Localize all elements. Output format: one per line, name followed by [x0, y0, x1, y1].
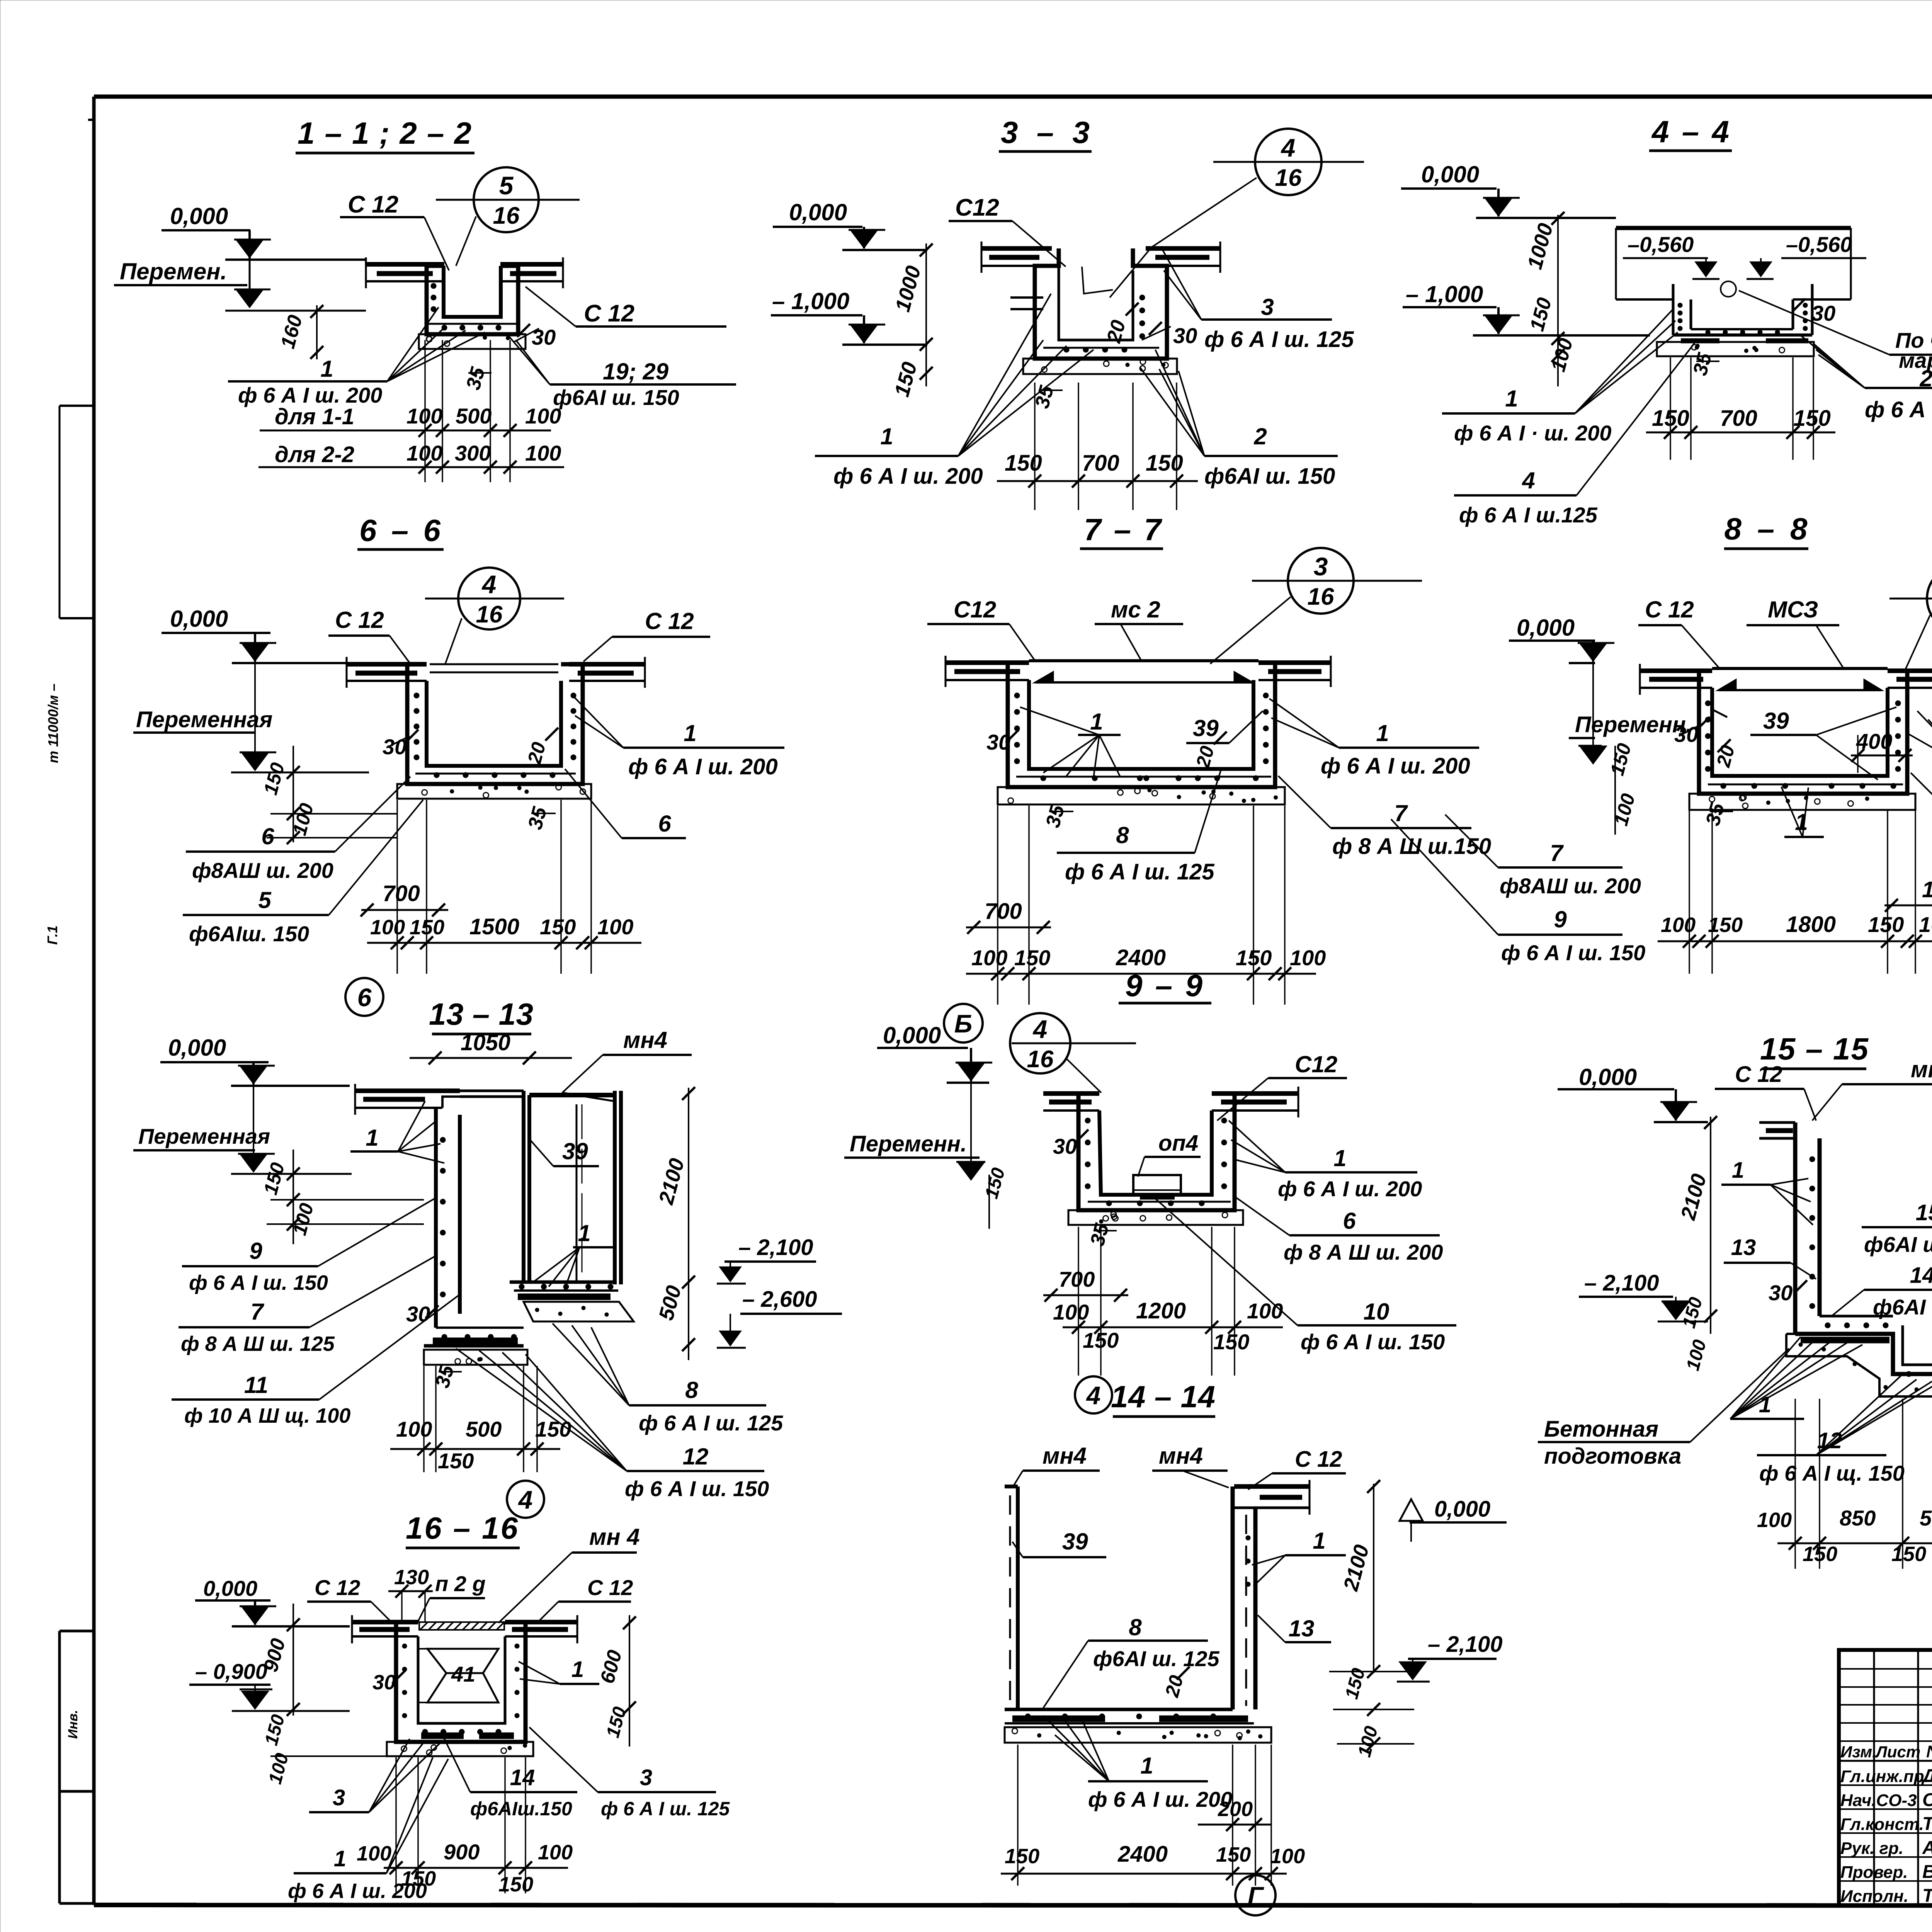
label 1 ф6АI ш.200 (8-8) [1909, 711, 1932, 804]
svg-text:1 – 1 ; 2 – 2: 1 – 1 ; 2 – 2 [298, 116, 471, 150]
svg-text:6: 6 [1343, 1208, 1356, 1234]
svg-text:С 12: С 12 [587, 1575, 633, 1600]
section title 13-13 [429, 997, 533, 1034]
detail circle 4/16 (6-6) [425, 568, 564, 629]
svg-text:500: 500 [466, 1417, 502, 1441]
label 7 ф8АIII ш.200 (8-8) [1911, 773, 1932, 881]
svg-text:30: 30 [1173, 323, 1197, 348]
svg-text:30: 30 [1674, 722, 1698, 747]
svg-text:500: 500 [456, 404, 492, 428]
svg-text:150: 150 [535, 1417, 571, 1441]
label 13 (14-14) [1258, 1615, 1331, 1642]
level mark Переменная (13-13 left) [133, 1062, 352, 1174]
level -2,100 (13-13) [717, 1235, 816, 1284]
label п2g (16-16) [417, 1571, 486, 1623]
channel pit 9-9 [1078, 1094, 1235, 1210]
svg-text:С 12: С 12 [1645, 597, 1694, 622]
svg-text:0,000: 0,000 [170, 203, 228, 229]
svg-text:1: 1 [1732, 1158, 1744, 1183]
dim 30 (6-6) [383, 730, 418, 759]
svg-text:п 2 g: п 2 g [435, 1571, 486, 1596]
svg-text:16: 16 [1027, 1046, 1054, 1073]
floor slab left (7-7) [946, 656, 1029, 687]
label 11 ф10АШ щ.100 (13-13) [172, 1294, 460, 1427]
dim row 150 700 150 (3-3) [997, 451, 1198, 488]
label С 12 left (15-15) [1715, 1062, 1816, 1121]
svg-text:900: 900 [444, 1840, 480, 1864]
extension lines (13-13) [423, 1366, 425, 1472]
leader from circle (6-6) [445, 618, 462, 664]
cover plate мс2 (7-7) [1029, 661, 1259, 682]
svg-text:– 2,100: – 2,100 [738, 1235, 813, 1260]
label мн4 (13-13) [562, 1027, 692, 1093]
label 1 right (14-14) [1252, 1528, 1346, 1586]
svg-text:19; 29: 19; 29 [603, 359, 669, 384]
level mark 0,000 (13-13 left) [160, 1035, 350, 1086]
svg-text:ф6АIш. 150: ф6АIш. 150 [189, 922, 309, 946]
extension lines (3-3 dims) [1034, 383, 1036, 510]
svg-text:100: 100 [971, 946, 1007, 970]
svg-text:Тарабрина: Тарабрина [1922, 1886, 1932, 1906]
hatched infill band (16-16) [419, 1622, 504, 1630]
channel pit 6-6 [407, 664, 583, 784]
svg-text:оп4: оп4 [1158, 1131, 1198, 1156]
dim row 100 150 1500 150 100 (6-6) [367, 914, 641, 949]
svg-text:30: 30 [1769, 1281, 1793, 1305]
prep layer 6-6 [397, 784, 591, 799]
svg-text:1: 1 [880, 423, 893, 449]
extension lines (14-14) [1232, 1745, 1233, 1886]
dim 20 rotated (8-8) [1712, 739, 1739, 770]
label 1 bottom (8-8) [1781, 787, 1824, 837]
svg-text:мн4: мн4 [623, 1027, 667, 1053]
svg-text:150: 150 [1891, 1543, 1926, 1566]
label 1 ф6АI ш.200 (1-1) [228, 307, 485, 407]
svg-text:ф 6 А I ш. 150: ф 6 А I ш. 150 [625, 1476, 769, 1501]
svg-text:– 2,600: – 2,600 [742, 1287, 817, 1312]
svg-text:1: 1 [1090, 709, 1103, 735]
label 6 ф8АШ ш.200 (below 6-6) [186, 777, 410, 883]
label С 12 right (6-6) [583, 608, 710, 662]
channel pit 7-7 [1008, 663, 1275, 787]
vertical dim 600 (16-16) [596, 1615, 636, 1747]
label 8 ф6АI ш.125 (14-14) [1043, 1614, 1219, 1708]
svg-text:30: 30 [532, 325, 556, 349]
svg-text:39: 39 [1062, 1529, 1088, 1554]
floor slab (4-4) [1616, 228, 1851, 299]
svg-text:700: 700 [1082, 451, 1119, 476]
svg-text:1800: 1800 [1786, 912, 1836, 937]
svg-text:100: 100 [1270, 1845, 1305, 1868]
svg-text:0,000: 0,000 [170, 606, 228, 632]
svg-text:ф 10 А Ш щ. 100: ф 10 А Ш щ. 100 [184, 1404, 350, 1427]
level mark -2,100 (15-15 left) [1579, 1089, 1708, 1321]
label 1 with fan (7-7) [1020, 707, 1121, 777]
svg-text:С12: С12 [955, 194, 999, 221]
vertical dim 160 (1-1) [277, 305, 323, 359]
svg-text:ф 6 А I · ш. 200: ф 6 А I · ш. 200 [1454, 421, 1611, 445]
left labels 7 ф8АШ ш.200 / 9 ф6АI ш.150 (8-8) [1445, 815, 1641, 898]
section title 15-15 [1760, 1032, 1869, 1069]
dim 30 (9-9) [1053, 1129, 1088, 1158]
label С 12 (14-14) [1248, 1447, 1346, 1490]
svg-text:Провер.: Провер. [1840, 1863, 1908, 1882]
section title 7-7 [1080, 512, 1163, 549]
vertical dims right (7-7) [1606, 741, 1639, 835]
level mark 0,000 (13-13 right) [877, 1022, 992, 1083]
dim 1050 (13-13) [410, 1030, 572, 1065]
svg-text:16: 16 [476, 601, 503, 628]
svg-text:150: 150 [1216, 1843, 1251, 1866]
level 0,000 (14-14) [1400, 1497, 1507, 1542]
label 8 ф6АI ш.125 (7-7) [1057, 770, 1221, 884]
svg-text:0,000: 0,000 [1579, 1064, 1637, 1090]
dim 130 (16-16) [388, 1566, 433, 1623]
svg-text:8 – 8: 8 – 8 [1725, 512, 1808, 546]
axis circle 4 (9-9) [1075, 1376, 1112, 1413]
svg-text:мн4: мн4 [1043, 1443, 1087, 1469]
svg-text:1: 1 [1505, 386, 1518, 412]
svg-text:Б: Б [954, 1009, 973, 1038]
label 1 bottom-left (15-15) [1730, 1337, 1862, 1419]
svg-text:ф 6 А I ш. 150: ф 6 А I ш. 150 [189, 1271, 328, 1294]
floor slab left (3-3) [981, 241, 1052, 273]
dim 20 rotated (14-14) [1161, 1667, 1190, 1700]
detail circle 4/16 (9-9) [1010, 1013, 1136, 1073]
level mark 0,000 (16-16) [195, 1576, 350, 1626]
svg-text:С 12: С 12 [584, 300, 634, 327]
svg-text:Гл.конст.: Гл.конст. [1840, 1815, 1924, 1834]
svg-text:6: 6 [658, 811, 671, 837]
svg-text:13: 13 [1731, 1235, 1756, 1260]
floor slab left (1-1) [366, 257, 444, 288]
pit floor with sump (15-15) [1795, 1316, 1932, 1377]
floor (14-14) [1005, 1709, 1254, 1723]
vertical dim 35 (1-1) [462, 364, 492, 392]
svg-text:1: 1 [571, 1657, 584, 1682]
svg-text:подготовка: подготовка [1544, 1444, 1681, 1469]
svg-text:7: 7 [1394, 800, 1408, 826]
svg-text:100: 100 [396, 1417, 432, 1441]
svg-text:ф 6 А I ш. 200: ф 6 А I ш. 200 [238, 383, 382, 407]
level mark 0,000 (4-4) [1401, 162, 1616, 218]
svg-text:9: 9 [1554, 906, 1567, 932]
level -0,560 right [1747, 232, 1866, 279]
vertical dims 150/100 left (6-6) [260, 746, 397, 844]
svg-text:150: 150 [498, 1873, 533, 1896]
svg-text:850: 850 [1840, 1506, 1876, 1530]
svg-text:700: 700 [1059, 1267, 1095, 1291]
svg-text:100: 100 [1919, 912, 1932, 937]
svg-text:С 12: С 12 [1295, 1447, 1342, 1472]
svg-text:10: 10 [1364, 1299, 1389, 1325]
extension lines (8-8) [1689, 811, 1690, 974]
svg-text:2400: 2400 [1116, 945, 1166, 970]
svg-text:41: 41 [451, 1662, 475, 1686]
level mark Переменная (6-6) [133, 633, 369, 772]
leader from circle 5/16 [456, 216, 476, 266]
label 3 ф6АI ш.125 (3-3) [1161, 247, 1354, 352]
dim row 100 500 150 / 150 (13-13) [390, 1417, 571, 1473]
extension lines (4-4) [1670, 357, 1671, 460]
level mark Перемен. (1-1) [114, 230, 366, 311]
prep layer 7-7 [998, 787, 1285, 804]
svg-text:30: 30 [1811, 301, 1835, 325]
svg-text:14 – 14: 14 – 14 [1111, 1379, 1215, 1414]
dim 30 (7-7) [986, 730, 1019, 754]
svg-text:мн 4: мн 4 [589, 1524, 640, 1550]
svg-text:14: 14 [510, 1765, 535, 1790]
svg-text:7: 7 [250, 1299, 264, 1325]
svg-text:12: 12 [683, 1444, 709, 1469]
svg-text:ф 6 А I ш. 150: ф 6 А I ш. 150 [1501, 940, 1645, 965]
svg-text:мн4: мн4 [1911, 1056, 1932, 1082]
label 12 ф6АI щ.150 (15-15) [1757, 1376, 1932, 1485]
dim 700 (6-6) [361, 881, 448, 917]
vertical dim 35 (9-9) [1086, 1221, 1117, 1248]
svg-text:6: 6 [261, 823, 274, 849]
level mark 0,000 (6-6) [162, 606, 346, 663]
upper floor slab (13-13) [355, 1084, 460, 1115]
vertical dim 35 (6-6) [524, 804, 556, 832]
svg-text:0,000: 0,000 [883, 1022, 941, 1048]
extension lines (9-9) [1078, 1227, 1079, 1376]
vertical dim 35 (4-4) [1689, 350, 1719, 378]
floor slab right (8-8) [1888, 664, 1932, 695]
svg-text:150: 150 [438, 1449, 474, 1473]
svg-text:ф 6 А I ш. 150: ф 6 А I ш. 150 [1301, 1330, 1445, 1354]
dim 30 (3-3) [1142, 322, 1197, 348]
svg-text:2: 2 [1253, 423, 1267, 449]
svg-text:мс 2: мс 2 [1111, 597, 1160, 622]
dim row 100 150 1800 150 100 (8-8) [1658, 912, 1932, 948]
floor slab right (9-9) [1212, 1087, 1298, 1117]
channel pit 16-16 [396, 1622, 526, 1742]
svg-text:– 2,100: – 2,100 [1584, 1270, 1659, 1296]
deep pit walls (15-15) [1759, 1122, 1932, 1334]
svg-text:4: 4 [518, 1485, 533, 1514]
svg-text:Г.1: Г.1 [44, 925, 60, 945]
svg-text:3: 3 [640, 1765, 652, 1790]
extension lines (15-15) [1794, 1399, 1796, 1569]
svg-text:–0,560: –0,560 [1786, 232, 1852, 257]
svg-text:1200: 1200 [1136, 1298, 1186, 1323]
svg-text:100: 100 [1661, 913, 1696, 937]
leader from circle (8-8) [1905, 615, 1930, 670]
label С 12 upper left (1-1) [340, 191, 449, 270]
svg-text:С 12: С 12 [315, 1575, 360, 1600]
svg-text:ф6АI ш. 150: ф6АI ш. 150 [553, 385, 679, 410]
label 6 ф8АIII ш.200 (9-9) [1236, 1198, 1443, 1264]
section title 3-3 [999, 115, 1092, 151]
svg-text:Апсе: Апсе [1922, 1838, 1932, 1858]
svg-text:ф 6 А I ш. 200: ф 6 А I ш. 200 [1321, 753, 1470, 779]
level -0,560 left [1623, 232, 1719, 279]
svg-text:ф 6 А I ш. 125: ф 6 А I ш. 125 [601, 1798, 730, 1820]
dim 1050 (8-8) [1884, 877, 1932, 974]
svg-text:150: 150 [1014, 946, 1050, 970]
label С12 (3-3) [949, 194, 1066, 267]
svg-text:1500: 1500 [469, 914, 519, 939]
vertical dims 150/100 (13-13 left) [260, 1150, 424, 1244]
label 39 (13-13) [530, 1138, 599, 1166]
label мн4 right (14-14) [1152, 1443, 1229, 1488]
svg-text:0,000: 0,000 [1421, 162, 1479, 187]
svg-text:3: 3 [333, 1785, 345, 1810]
svg-text:14: 14 [1910, 1263, 1932, 1288]
svg-text:5: 5 [258, 887, 272, 913]
svg-text:3: 3 [1314, 552, 1328, 581]
prep layer 16-16 [387, 1742, 533, 1756]
svg-text:– 2,100: – 2,100 [1428, 1632, 1503, 1657]
svg-text:– 1,000: – 1,000 [772, 288, 849, 314]
svg-text:С 12: С 12 [335, 607, 384, 633]
vertical dim line (4-4) [1523, 212, 1577, 386]
label 1 ф6АI ш.200 (4-4) [1442, 309, 1678, 445]
svg-text:30: 30 [383, 735, 406, 759]
detail circle 3/16 (7-7) [1252, 548, 1422, 614]
svg-text:1: 1 [684, 720, 696, 746]
drain hole (4-4) [1721, 281, 1736, 297]
svg-text:ф 6 А I ш. 125: ф 6 А I ш. 125 [1065, 859, 1214, 884]
level mark -1,000 (3-3) [771, 288, 927, 345]
dim row 150 700 150 (4-4) [1646, 406, 1835, 439]
svg-text:0,000: 0,000 [168, 1035, 226, 1061]
level mark 0,000 (15-15 left) [1558, 1064, 1708, 1122]
svg-text:Рук. гр.: Рук. гр. [1840, 1839, 1903, 1858]
svg-text:1050: 1050 [461, 1030, 510, 1055]
label 1 ф6АI ш.200 (14-14) [1043, 1716, 1232, 1811]
svg-text:8: 8 [685, 1377, 698, 1403]
floor slab left (6-6) [347, 657, 427, 688]
prep layer 9-9 [1068, 1210, 1243, 1225]
svg-text:150: 150 [1868, 912, 1904, 937]
svg-text:3 – 3: 3 – 3 [1001, 115, 1090, 150]
svg-text:ф6АI ш. 125: ф6АI ш. 125 [1093, 1646, 1219, 1671]
label Бетонная подготовка (15-15) [1538, 1349, 1789, 1469]
svg-text:0,000: 0,000 [1517, 615, 1575, 641]
title block revision table [1839, 1650, 1932, 1906]
svg-text:Инв.: Инв. [66, 1710, 80, 1739]
svg-text:для 2-2: для 2-2 [275, 442, 354, 467]
svg-text:6 – 6: 6 – 6 [359, 513, 441, 548]
axis circle Б [944, 1004, 983, 1043]
svg-text:2400: 2400 [1117, 1842, 1168, 1867]
label С 12 left (16-16) [307, 1575, 390, 1621]
label 2 ф6АI ш.150 (4-4) [1801, 335, 1932, 422]
leader from circle (3-3) [1151, 178, 1257, 247]
cover plate мс3 (8-8) [1712, 668, 1888, 690]
level mark 0,000 (3-3) [773, 199, 927, 250]
svg-text:1: 1 [1333, 1145, 1346, 1171]
dim 30 (16-16) [372, 1670, 405, 1694]
svg-text:Переменн.: Переменн. [850, 1131, 967, 1156]
dim row 100 150 2400 150 100 (7-7) [966, 945, 1326, 980]
label 10 ф6АI ш.150 (9-9) [1155, 1199, 1456, 1354]
label С 12 left (6-6) [328, 607, 410, 664]
dim 30 (15-15) [1769, 1280, 1807, 1305]
svg-text:150: 150 [1005, 1845, 1039, 1868]
svg-text:ф 6 А I ш.125: ф 6 А I ш.125 [1459, 503, 1598, 527]
label 19; 29 ф6АI ш.150 [506, 333, 736, 410]
main wall structure (13-13) [436, 1091, 621, 1328]
svg-text:100: 100 [525, 404, 561, 428]
svg-text:С12: С12 [1295, 1051, 1337, 1077]
svg-text:30: 30 [406, 1302, 430, 1326]
svg-text:ф 8 А Ш ш. 200: ф 8 А Ш ш. 200 [1284, 1240, 1443, 1264]
vertical dim 900 (16-16) [260, 1604, 300, 1716]
dim 20 rotated (7-7) [1192, 731, 1227, 770]
vertical dims 150 100 (16-16) [261, 1712, 387, 1786]
left margin rotated captions [44, 684, 80, 1739]
svg-text:Лист: Лист [1875, 1743, 1920, 1761]
dim 30 (8-8) [1674, 717, 1710, 747]
prep layer 3-3 [1023, 359, 1177, 374]
svg-text:1: 1 [334, 1846, 346, 1871]
detail circle 4/16 (3-3) [1213, 129, 1364, 195]
svg-text:4: 4 [1522, 468, 1535, 493]
svg-text:8: 8 [1129, 1614, 1142, 1640]
section title 1-1; 2-2 [296, 116, 474, 153]
svg-text:500: 500 [1920, 1506, 1932, 1530]
label 1 ф6АI ш.200 (7-7) [1269, 699, 1479, 779]
label 1 ф6АI ш.200 (6-6) [572, 695, 784, 779]
svg-text:Перемен.: Перемен. [120, 259, 227, 284]
vertical dim 35 (3-3) [1031, 383, 1063, 411]
label мн4 (15-15) [1812, 1056, 1932, 1121]
floor slab left (16-16) [352, 1615, 418, 1643]
svg-text:ф8АШ ш. 200: ф8АШ ш. 200 [1500, 874, 1641, 898]
svg-text:7: 7 [1550, 840, 1564, 866]
svg-text:С12: С12 [954, 597, 996, 622]
svg-text:С 12: С 12 [1735, 1062, 1782, 1087]
svg-text:1: 1 [320, 356, 333, 382]
label С12 (7-7) [927, 597, 1036, 662]
svg-text:ф 6 А I ш. 200: ф 6 А I ш. 200 [628, 754, 778, 779]
label С 12 (8-8) [1638, 597, 1720, 669]
svg-text:Олешко: Олешко [1922, 1790, 1932, 1810]
svg-text:100: 100 [1290, 946, 1326, 970]
label оп4 (9-9) [1138, 1131, 1201, 1177]
axis circle Г (14-14) [1235, 1875, 1276, 1915]
svg-text:ф6АI ш. 125: ф6АI ш. 125 [1873, 1295, 1932, 1319]
axis circle 6 [345, 978, 383, 1016]
svg-text:1: 1 [1376, 720, 1389, 746]
dim row для 2-2: 100 300 100 [259, 441, 564, 474]
svg-text:100: 100 [370, 916, 405, 939]
svg-text:16 – 16: 16 – 16 [406, 1511, 518, 1545]
floor slab right (3-3) [1146, 241, 1220, 273]
axis circle 4 (13-13) [507, 1481, 544, 1518]
dim row 100 900 100 / 150 150 (16-16) [357, 1840, 573, 1896]
svg-text:Исполн.: Исполн. [1840, 1887, 1908, 1906]
dim 20 rotated (3-3) [1102, 303, 1138, 345]
svg-text:4: 4 [1281, 133, 1296, 162]
label мн4 (16-16) [498, 1524, 640, 1623]
svg-text:16: 16 [1275, 165, 1302, 191]
dim 400 (8-8) [1851, 729, 1913, 773]
label 3 left fan (16-16) [309, 1739, 440, 1812]
label 14 ф6АI ш.125 (15-15) [1832, 1263, 1932, 1319]
svg-text:7 – 7: 7 – 7 [1084, 512, 1163, 547]
dim row 100 850 500 750 100 (15-15) [1757, 1506, 1932, 1566]
level -2,100 (14-14) [1397, 1632, 1503, 1682]
svg-text:100: 100 [1757, 1509, 1792, 1532]
label мн4 left (14-14) [1012, 1443, 1100, 1488]
prep layer 4-4 [1657, 342, 1814, 356]
svg-text:–0,560: –0,560 [1628, 232, 1694, 257]
title block staff rows [1840, 1766, 1932, 1906]
